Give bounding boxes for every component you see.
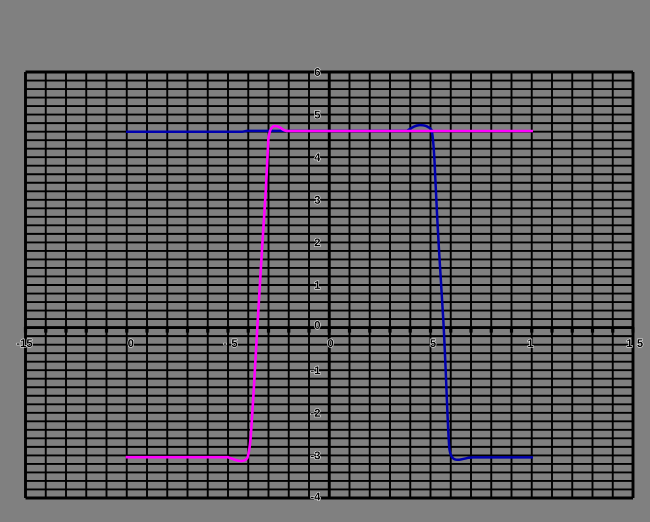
y label 4 <box>314 153 320 161</box>
axis tick bulges on x-axis <box>26 327 634 333</box>
y label 0 <box>315 321 320 329</box>
x label 15 (digit 5) <box>637 339 643 347</box>
axis numeral labels (as glyph outline paths, white halo) <box>17 68 643 500</box>
x label -5 (minus) <box>224 343 227 344</box>
y label -4 <box>311 497 314 498</box>
y label 3 <box>314 196 320 204</box>
y label 2 <box>315 238 320 246</box>
y label 6 <box>315 68 320 76</box>
x label 15 (digit 1) <box>627 339 632 347</box>
magenta curve: square wave rising near x=-pi <box>126 126 533 461</box>
y label -2 <box>311 413 314 414</box>
y label -1 <box>311 370 314 371</box>
blue curve: square wave falling near x=5.2 <box>126 125 533 460</box>
x label 5 <box>430 339 436 347</box>
y label 5 <box>315 111 321 119</box>
x label -5 (digit) <box>232 339 238 347</box>
y label -3 <box>311 456 314 457</box>
x label -10 (only 0 visible) <box>128 339 133 347</box>
x label -15 <box>17 343 20 344</box>
minor grid lines: 30 columns x 50 rows <box>26 72 634 498</box>
plot border + x-axis + y-axis (thick) <box>26 72 634 498</box>
x label 0 <box>328 339 333 347</box>
x label 10 (only 1 visible) <box>528 339 533 347</box>
y label 1 <box>315 281 320 289</box>
